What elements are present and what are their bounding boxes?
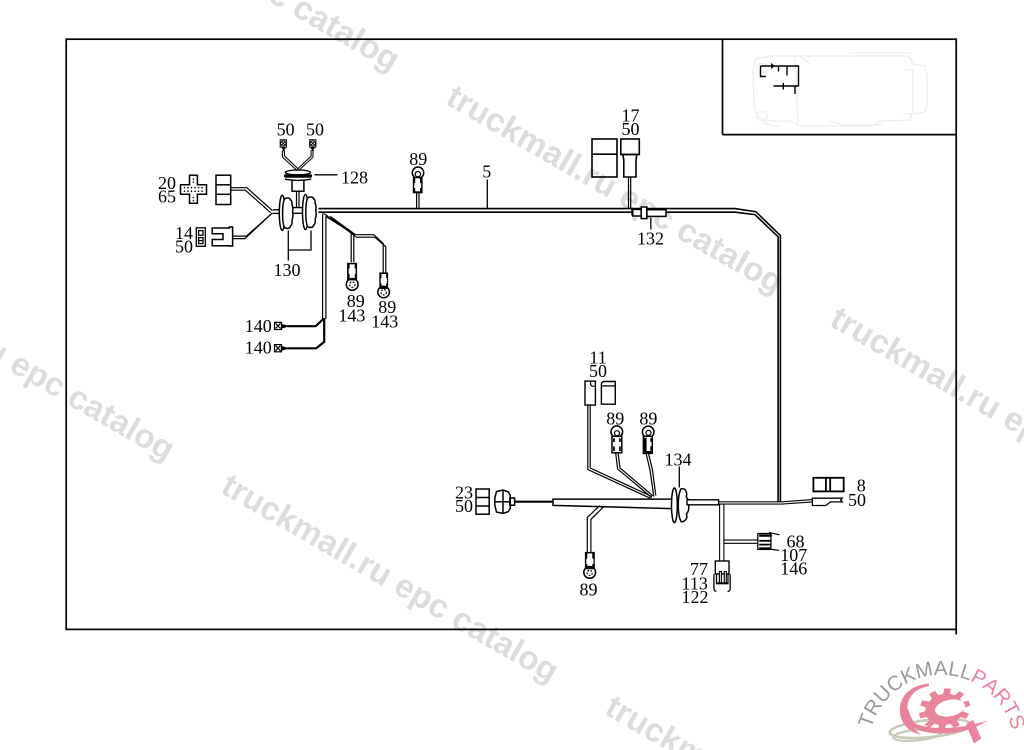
svg-text:5: 5 bbox=[482, 162, 491, 182]
svg-text:143: 143 bbox=[338, 305, 365, 325]
svg-text:A: A bbox=[934, 657, 948, 680]
svg-text:89: 89 bbox=[580, 579, 598, 599]
svg-text:140: 140 bbox=[245, 316, 272, 336]
svg-text:128: 128 bbox=[341, 168, 368, 188]
svg-text:130: 130 bbox=[274, 260, 301, 280]
svg-text:50: 50 bbox=[175, 237, 193, 257]
svg-text:50: 50 bbox=[455, 496, 473, 516]
svg-text:89: 89 bbox=[606, 409, 624, 429]
svg-text:50: 50 bbox=[848, 490, 866, 510]
svg-text:122: 122 bbox=[682, 587, 709, 607]
svg-text:50: 50 bbox=[306, 120, 324, 140]
svg-text:146: 146 bbox=[780, 559, 807, 579]
svg-text:89: 89 bbox=[409, 149, 427, 169]
svg-text:143: 143 bbox=[371, 312, 398, 332]
svg-text:140: 140 bbox=[245, 338, 272, 358]
svg-text:50: 50 bbox=[277, 120, 295, 140]
svg-text:134: 134 bbox=[665, 450, 692, 470]
svg-text:50: 50 bbox=[589, 361, 607, 381]
svg-text:50: 50 bbox=[622, 119, 640, 139]
svg-text:132: 132 bbox=[637, 228, 664, 248]
svg-text:65: 65 bbox=[158, 187, 176, 207]
svg-text:89: 89 bbox=[639, 409, 657, 429]
